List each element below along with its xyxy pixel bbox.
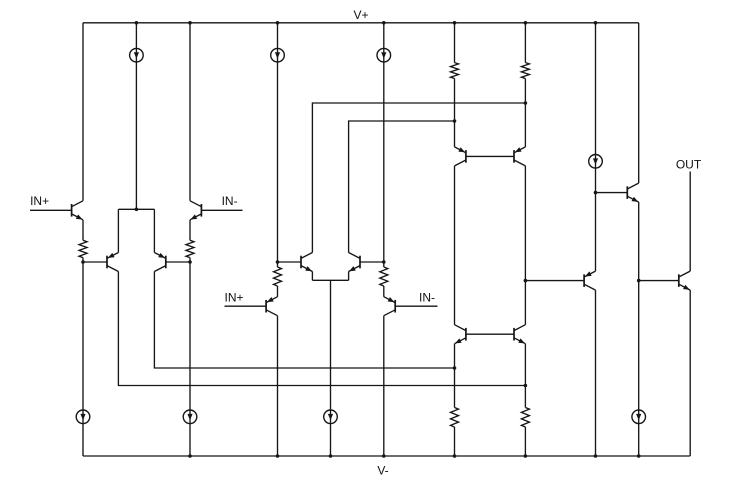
- node dot x454.5 y368: [453, 366, 457, 370]
- svg-text:IN-: IN-: [222, 194, 238, 208]
- resistor R5: [451, 63, 459, 79]
- svg-text:V-: V-: [377, 464, 388, 478]
- wire: tail bar of Q3/Q4: [118, 208, 154, 210]
- svg-text:IN+: IN+: [224, 291, 243, 305]
- resistor R6: [521, 63, 529, 79]
- wire: R4 to Q8 emitter: [383, 286, 385, 297]
- wire: Q8 collector down to V-: [383, 316, 385, 456]
- node dot on V+ rail x383.8: [382, 21, 386, 25]
- transistor Q6 (second stage NPN, right): [349, 253, 360, 272]
- wire: Q7 collector down to V-: [277, 316, 279, 456]
- wire: Q11 emitter down to V- rail end: [689, 290, 691, 456]
- node dot x525.4 y103: [524, 101, 528, 105]
- transistor Q2 (IN- input follower, NPN): [190, 201, 201, 220]
- wire: Q5 emitter down: [311, 272, 313, 281]
- wire: QN1/QN2 base tie: [466, 333, 514, 335]
- wire: R3 to Q7 emitter: [277, 286, 279, 297]
- wire: QP2 collector to QN2 collector: [524, 166, 526, 325]
- node F (bias node): [594, 191, 598, 195]
- wire: Q3 emitter up: [117, 209, 119, 252]
- wire: tail down to current source I6: [330, 280, 332, 456]
- wire: QP1 collector to QN1 collector: [454, 166, 456, 325]
- wire: Q6 emitter down: [348, 272, 350, 281]
- wire: R7 to V-: [454, 427, 456, 456]
- current source I6 (bottom, second stage tail): [324, 410, 338, 424]
- node dot on V+ rail x454.5: [453, 21, 457, 25]
- wire: IN+ input lead: [30, 209, 72, 211]
- transistor QN2 (cascode NPN, right): [514, 325, 525, 344]
- current source I8 (bottom right): [632, 410, 646, 424]
- wire: Q6 collector up and across to cascode: [349, 121, 455, 253]
- current source I2 (top, first stage tail): [130, 48, 144, 62]
- current source I3 (bottom, x190): [183, 410, 197, 424]
- wire: QN1 emitter down to R7: [454, 344, 456, 408]
- transistor Q4 (first stage PNP, right): [154, 253, 165, 272]
- node E (drive node): [524, 279, 528, 283]
- resistor R3: [274, 267, 282, 286]
- node G (Q11 base node): [637, 279, 641, 283]
- wire: second stage right bias column: [383, 23, 385, 267]
- wire: Q9 emitter up to bias node: [595, 193, 597, 272]
- wire: QP1/QP2 base tie: [466, 155, 514, 157]
- node dot on V- rail x190: [188, 454, 192, 458]
- resistor R8: [521, 408, 529, 428]
- node B (Q2 emitter / Q4 base): [188, 260, 192, 264]
- transistor QP2 (cascode PNP, right): [514, 147, 525, 166]
- node dot on V+ rail x595.5: [594, 21, 598, 25]
- node dot on V+ rail x190: [188, 21, 192, 25]
- wire: R8 to V-: [524, 427, 526, 456]
- wire: Q5 collector up and across to cascode: [312, 103, 525, 253]
- svg-text:V+: V+: [353, 8, 368, 22]
- resistor R1: [79, 240, 87, 257]
- current source I1 (bottom left): [76, 410, 90, 424]
- resistor R7: [451, 408, 459, 428]
- transistor QN1 (cascode NPN, left): [455, 325, 466, 344]
- node dot on V- rail x525.4: [524, 454, 528, 458]
- svg-text:OUT: OUT: [676, 158, 702, 172]
- node D (Q8 emitter / Q6 base): [382, 260, 386, 264]
- svg-text:IN-: IN-: [419, 291, 435, 305]
- transistor Q7 (IN+ input follower stage 2, PNP): [266, 297, 277, 316]
- V- rail: [83, 455, 690, 457]
- node dot on V- rail x595.5: [594, 454, 598, 458]
- wire: tail bar of Q5/Q6: [312, 279, 348, 281]
- node dot x525.4 y385.5: [524, 384, 528, 388]
- wire: Q3 base wire: [83, 261, 107, 263]
- node dot on V- rail x277.5: [276, 454, 280, 458]
- wire: Q4 collector down and across to cascode: [154, 272, 454, 369]
- node dot on V- rail x454.5: [453, 454, 457, 458]
- node dot on V- rail x638.7: [637, 454, 641, 458]
- current source I7 (output bias): [589, 155, 603, 169]
- wire: Q10 emitter down to current source I8: [638, 202, 640, 456]
- transistor Q5 (second stage NPN, left): [301, 253, 312, 272]
- wire: V+ to current source I2: [135, 23, 137, 210]
- resistor R4: [380, 267, 388, 286]
- transistor Q1 (IN+ input follower, NPN): [72, 201, 83, 220]
- wire: second stage left bias column: [277, 23, 279, 267]
- wire: Q9 collector down to V-: [595, 290, 597, 456]
- transistor Q11 (output NPN): [679, 271, 690, 290]
- node dot on V- rail x330.5: [329, 454, 333, 458]
- wire: Q4 emitter up: [153, 209, 155, 252]
- wire: Q4 base wire: [166, 261, 190, 263]
- node dot on V+ rail x525.4: [524, 21, 528, 25]
- transistor QP1 (cascode PNP, left): [455, 147, 466, 166]
- node A (Q1 emitter / Q3 base): [81, 260, 85, 264]
- wire: Q10 collector up to V+ rail end: [638, 23, 640, 183]
- wire: bias node to Q10 base: [596, 192, 628, 194]
- resistor R2: [186, 240, 194, 257]
- wire: cascode left column top lead: [454, 23, 456, 63]
- wire: QN2 emitter down to R8: [524, 344, 526, 408]
- wire: Q2 emitter lead: [189, 220, 191, 240]
- transistor Q10 (output follower NPN): [627, 183, 638, 202]
- current source I5 (top, x383.8): [377, 48, 391, 62]
- wire: left column collector lead to V+: [82, 23, 84, 201]
- wire: R6 to QP2 emitter: [524, 79, 526, 147]
- wire: IN- column down to V-: [189, 258, 191, 456]
- svg-text:IN+: IN+: [30, 194, 49, 208]
- wire: V+ down through current source I7: [595, 23, 597, 193]
- current source I4 (top, x277.5): [271, 48, 285, 62]
- wire: OUT lead to Q11 collector: [689, 172, 691, 272]
- wire: R5 to QP1 emitter: [454, 79, 456, 147]
- wire: Q1 emitter lead: [82, 220, 84, 240]
- wire: left column down to V-: [82, 258, 84, 456]
- wire: IN- column collector lead: [189, 23, 191, 201]
- transistor Q9 (driver PNP): [584, 271, 595, 290]
- transistor Q8 (IN- input follower stage 2, PNP): [384, 297, 395, 316]
- node dot on V+ rail x136: [135, 21, 139, 25]
- V+ rail: [83, 22, 639, 24]
- node dot on V- rail x383.8: [382, 454, 386, 458]
- wire: cascode right column top lead: [524, 23, 526, 63]
- wire: IN- input lead: [201, 209, 242, 211]
- wire: drive node to Q9 base: [525, 280, 584, 282]
- node dot on V+ rail x277.5: [276, 21, 280, 25]
- wire: Q3 collector down and across to cascode: [118, 272, 525, 386]
- transistor Q3 (first stage PNP, left): [107, 253, 118, 272]
- node tail dot: [135, 208, 139, 212]
- wire: node G to Q11 base: [639, 280, 679, 282]
- wire: IN- stage2 input lead: [395, 305, 437, 307]
- wire: Q5 base wire: [278, 261, 302, 263]
- wire: IN+ stage2 input lead: [225, 305, 267, 307]
- node C (Q7 emitter / Q5 base): [276, 260, 280, 264]
- wire: Q6 base wire: [360, 261, 384, 263]
- node dot x454.5 y121: [453, 119, 457, 123]
